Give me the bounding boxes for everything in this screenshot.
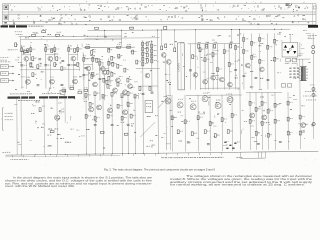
svg-text:ment: with the W.W. Mullard te: ment: with the W.W. Mullard test meter 2… (5, 184, 75, 187)
svg-text:Fig. 2. The main circuit diag: Fig. 2. The main circuit diagram. The pr… (104, 169, 216, 172)
svg-text:for normal working; all are me: for normal working; all are measured to … (170, 182, 305, 186)
svg-text:LM380: LM380 (177, 63, 180, 72)
